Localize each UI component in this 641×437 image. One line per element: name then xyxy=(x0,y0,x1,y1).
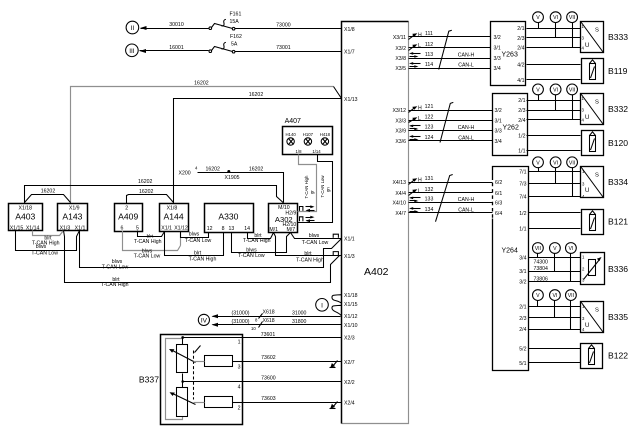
wire Y262 1/2 to B120 xyxy=(527,135,581,137)
sensor B119 xyxy=(582,59,628,84)
svg-text:30010: 30010 xyxy=(169,22,184,28)
svg-text:1/2: 1/2 xyxy=(518,134,525,140)
svg-text:2: 2 xyxy=(238,406,241,412)
svg-text:H107: H107 xyxy=(303,132,314,137)
svg-text:133: 133 xyxy=(425,197,434,203)
node VI xyxy=(550,12,561,38)
svg-text:IV: IV xyxy=(201,317,208,324)
wire 133 CAN-H X4/10 to Y264 6/3 xyxy=(409,197,493,203)
svg-text:16202: 16202 xyxy=(41,189,56,195)
svg-text:X2/4: X2/4 xyxy=(344,400,355,406)
svg-text:111: 111 xyxy=(425,31,433,37)
wire 73806 Y264 3/2 to B336 pin3 xyxy=(529,277,581,283)
svg-text:16202: 16202 xyxy=(138,179,153,185)
svg-text:31000: 31000 xyxy=(292,310,307,316)
svg-text:B336: B336 xyxy=(608,264,628,274)
svg-text:5/2: 5/2 xyxy=(519,346,526,352)
svg-text:6/1: 6/1 xyxy=(495,191,502,197)
svg-text:Y262: Y262 xyxy=(503,125,519,132)
wire blrt T-CAN High A302 M/1 to A402 X1/3 xyxy=(274,233,342,264)
svg-text:113: 113 xyxy=(425,52,433,58)
A402 left pin labels xyxy=(344,27,358,406)
wire Y264 7/3 to B334 pin3 xyxy=(529,183,581,185)
svg-text:VI: VI xyxy=(553,15,558,21)
svg-text:A144: A144 xyxy=(164,211,184,221)
wire blrt T-CAN High A330 pin14 to A302 M/1 xyxy=(243,233,274,245)
wire 73601 B337 pin1 to X2/3 xyxy=(183,332,342,338)
svg-text:H418: H418 xyxy=(320,132,331,137)
svg-text:2/3: 2/3 xyxy=(517,36,524,42)
svg-text:X1/7: X1/7 xyxy=(344,50,355,56)
node VII xyxy=(567,12,578,48)
cable marker group3 xyxy=(436,175,453,222)
wire Y263 2/1 to B333 pin1 xyxy=(527,28,581,30)
sensor B122 xyxy=(581,344,629,369)
wire Y264 2/4 to B335 pin4 xyxy=(529,329,581,331)
svg-text:134: 134 xyxy=(425,207,434,213)
wire 132 X4/4 to Y264 6/1 xyxy=(409,187,493,195)
wire 73001 xyxy=(235,45,342,52)
node IV xyxy=(198,314,209,325)
svg-text:1/8: 1/8 xyxy=(296,149,303,154)
svg-text:X3/11: X3/11 xyxy=(393,35,406,41)
svg-text:B120: B120 xyxy=(608,138,628,148)
lamp H107 xyxy=(303,132,314,145)
svg-text:4/2: 4/2 xyxy=(517,63,524,69)
svg-text:3/1: 3/1 xyxy=(494,46,501,52)
wire Y262 2/4 to B332 pin4 xyxy=(527,119,581,121)
svg-text:X4/10: X4/10 xyxy=(392,201,406,207)
svg-text:73806: 73806 xyxy=(534,277,549,283)
svg-text:10: 10 xyxy=(251,326,256,331)
wire 16202 black bus A144 X1/8 to A402 X1/13 xyxy=(174,92,342,203)
wire 16202 A403 X1/18 to A302 M/10 xyxy=(25,179,284,203)
node I screen marker xyxy=(316,299,329,312)
svg-text:X618: X618 xyxy=(263,318,275,324)
svg-text:A402: A402 xyxy=(364,266,389,278)
wire blws T-CAN Low A330 pin13 to A302 M/7 xyxy=(232,233,291,259)
wire 73602 B337 pin3 to X2/7 xyxy=(243,355,342,362)
svg-text:2/1: 2/1 xyxy=(518,98,525,104)
cable marker group1 xyxy=(439,30,452,69)
svg-text:VII: VII xyxy=(568,293,574,299)
wire 134 CAN-L X4/7 to Y264 6/4 xyxy=(409,207,493,213)
svg-text:73602: 73602 xyxy=(261,355,276,361)
mechanical link dashed xyxy=(194,346,201,400)
svg-text:12: 12 xyxy=(207,226,213,232)
svg-text:CAN-H: CAN-H xyxy=(458,52,475,58)
svg-text:F161: F161 xyxy=(230,12,242,18)
svg-text:6/3: 6/3 xyxy=(495,201,502,207)
potentiometer P1 xyxy=(169,336,196,372)
wire 111 X3/11 to Y263 3/2 xyxy=(409,31,491,39)
wire blws T-CAN Low A403 X1/15 to A143 X1/1 xyxy=(16,231,80,257)
svg-text:X1/3: X1/3 xyxy=(60,226,71,232)
svg-text:T-CAN Low: T-CAN Low xyxy=(185,238,212,244)
lamp H140 xyxy=(285,132,296,145)
svg-text:3/4: 3/4 xyxy=(495,139,502,145)
svg-text:3/2: 3/2 xyxy=(494,35,501,41)
svg-text:A330: A330 xyxy=(218,212,238,222)
wire Y264 5/2 to B122 xyxy=(529,348,581,350)
svg-text:5/1: 5/1 xyxy=(519,361,526,367)
svg-text:3/3: 3/3 xyxy=(495,129,502,135)
node II xyxy=(126,21,139,34)
svg-text:3/4: 3/4 xyxy=(494,66,501,72)
node V xyxy=(550,243,561,272)
svg-text:X3/6: X3/6 xyxy=(395,139,406,145)
svg-text:B337: B337 xyxy=(139,375,159,385)
svg-text:5A: 5A xyxy=(231,42,238,48)
svg-text:16202: 16202 xyxy=(194,80,209,86)
svg-text:16001: 16001 xyxy=(169,45,184,51)
svg-text:132: 132 xyxy=(425,187,434,193)
module A409 xyxy=(115,204,143,232)
svg-text:blrt: blrt xyxy=(194,251,202,257)
svg-text:1/14: 1/14 xyxy=(312,149,321,154)
svg-text:(31000): (31000) xyxy=(232,319,250,325)
node V xyxy=(533,12,544,29)
node VII xyxy=(566,290,577,330)
wire 16202 gray bus A143 X1/9 to A402 X1/13 xyxy=(71,80,342,203)
svg-text:T-CAN Low: T-CAN Low xyxy=(320,175,325,198)
direction arrow at X2/4 xyxy=(330,402,338,409)
svg-text:31800: 31800 xyxy=(292,319,307,325)
screen link X1/15 to X1/12 xyxy=(332,305,342,315)
svg-text:X1/12: X1/12 xyxy=(344,314,358,320)
svg-text:1: 1 xyxy=(238,339,241,345)
wire Y263 4/2 to B119 xyxy=(527,64,581,66)
svg-text:T-CAN High: T-CAN High xyxy=(101,282,129,288)
svg-text:2/4: 2/4 xyxy=(518,118,525,124)
wire 122 X3/3 to Y262 3/1 xyxy=(409,115,493,123)
wire Y262 2/1 to B332 pin1 xyxy=(527,100,581,102)
svg-text:X3/3: X3/3 xyxy=(395,119,406,125)
wire Y263 4/1 to B119 xyxy=(527,79,581,81)
svg-text:VI: VI xyxy=(553,160,558,166)
A402 right pin labels xyxy=(392,35,406,217)
node VI xyxy=(550,157,561,184)
svg-text:3/2: 3/2 xyxy=(519,280,526,286)
svg-text:blws: blws xyxy=(309,233,320,239)
svg-text:114: 114 xyxy=(425,62,433,68)
connector bracket at X1/1 xyxy=(333,234,338,238)
wire 74300 Y264 3/4 to B336 pin1 xyxy=(529,258,581,266)
node V xyxy=(533,290,544,307)
svg-text:124: 124 xyxy=(425,135,434,141)
svg-text:6/2: 6/2 xyxy=(495,180,502,186)
svg-text:T-CAN High: T-CAN High xyxy=(296,257,324,263)
svg-text:2/3: 2/3 xyxy=(518,108,525,114)
solenoid unit Y263 xyxy=(491,22,526,86)
svg-text:gr: gr xyxy=(310,190,315,194)
wire 16202 from X200 pin 4 via splice X1905 to A302 M/10 xyxy=(179,166,284,203)
svg-text:B333: B333 xyxy=(608,32,628,42)
svg-text:T-CAN Low: T-CAN Low xyxy=(302,240,329,246)
svg-text:8: 8 xyxy=(222,226,225,232)
sensor B333 xyxy=(581,22,629,53)
svg-text:blrt: blrt xyxy=(304,251,312,257)
svg-text:121: 121 xyxy=(425,104,434,110)
svg-text:X1/3: X1/3 xyxy=(344,254,355,260)
wire gr T-CAN High A407 1/8 to A302 H2/9 xyxy=(298,155,317,212)
module A144 xyxy=(160,204,189,232)
svg-text:X1/9: X1/9 xyxy=(69,205,80,211)
fuse F161 xyxy=(209,12,241,31)
wire Y264 2/3 to B335 pin3 xyxy=(529,317,581,319)
svg-text:X1/13: X1/13 xyxy=(344,97,358,103)
svg-text:6/4: 6/4 xyxy=(495,211,502,217)
svg-text:A143: A143 xyxy=(62,211,82,221)
svg-text:CAN-H: CAN-H xyxy=(458,125,475,131)
wire 114 CAN-L X3/5 to Y263 3/4 xyxy=(409,62,491,68)
wire blrt T-CAN High A403 X1/14 to A143 X1/3 xyxy=(32,231,64,247)
svg-text:73603: 73603 xyxy=(261,396,276,402)
wire blws T-CAN Low A144 X1/12 to A330 pin12 xyxy=(181,232,212,245)
svg-text:T-CAN Low: T-CAN Low xyxy=(134,254,161,260)
svg-text:T-CAN High: T-CAN High xyxy=(304,175,309,199)
svg-text:T-CAN High: T-CAN High xyxy=(189,257,217,263)
node VII xyxy=(533,243,544,258)
svg-text:2/1: 2/1 xyxy=(519,304,526,310)
svg-text:VII: VII xyxy=(569,15,575,21)
svg-text:B335: B335 xyxy=(608,312,628,322)
sensor B120 xyxy=(582,131,629,156)
svg-text:VI: VI xyxy=(552,293,557,299)
svg-text:Y264: Y264 xyxy=(502,248,518,255)
svg-text:16202: 16202 xyxy=(249,92,264,98)
svg-text:2: 2 xyxy=(125,205,128,211)
sensor B121 xyxy=(582,210,629,235)
svg-text:X1/15: X1/15 xyxy=(10,226,24,232)
svg-text:A407: A407 xyxy=(285,118,301,125)
svg-text:X3/2: X3/2 xyxy=(395,46,406,52)
svg-text:3/4: 3/4 xyxy=(519,256,526,262)
svg-text:V: V xyxy=(536,87,540,93)
svg-text:X1/10: X1/10 xyxy=(344,323,358,329)
wire blrt T-CAN High bus A143 X1/3 to A402 X1/3 xyxy=(64,231,340,289)
svg-text:T-CAN Low: T-CAN Low xyxy=(31,251,58,257)
svg-text:V: V xyxy=(536,160,540,166)
svg-text:F162: F162 xyxy=(230,34,242,40)
svg-text:VII: VII xyxy=(569,160,575,166)
svg-text:L: L xyxy=(418,116,421,122)
wire gn T-CAN Low A407 1/14 to A302 H2/10 xyxy=(298,155,333,223)
svg-text:T-CAN Low: T-CAN Low xyxy=(238,253,265,259)
wire Y264 7/1 to B334 pin1 xyxy=(529,171,581,173)
svg-text:4: 4 xyxy=(238,384,241,390)
node VI xyxy=(550,84,561,111)
svg-text:CAN-L: CAN-L xyxy=(458,62,474,68)
wire 121 X3/12 to Y262 3/2 xyxy=(409,104,493,112)
wire Y264 2/1 to B335 pin1 xyxy=(529,306,581,308)
connector arrows at H2/10 xyxy=(300,216,315,222)
svg-text:T-CAN High: T-CAN High xyxy=(134,239,162,245)
wire Y263 2/3 to B333 pin3 xyxy=(527,37,581,39)
resistor R2 xyxy=(194,397,243,408)
node V xyxy=(533,84,544,101)
svg-text:112: 112 xyxy=(425,42,433,48)
module A403 xyxy=(9,204,43,232)
wire 31000 to A402 X1/12 via X618 pin 8 xyxy=(212,309,341,322)
svg-text:122: 122 xyxy=(425,115,434,121)
svg-text:16202: 16202 xyxy=(139,189,154,195)
connector bracket at X1/3 xyxy=(333,252,338,256)
svg-text:H2/9: H2/9 xyxy=(285,210,296,216)
svg-text:X4/7: X4/7 xyxy=(395,211,406,217)
svg-text:X1/8: X1/8 xyxy=(344,27,355,33)
splice X1905 xyxy=(224,170,239,181)
svg-text:X2/2: X2/2 xyxy=(344,380,355,386)
svg-text:VI: VI xyxy=(553,87,558,93)
svg-text:V: V xyxy=(536,293,540,299)
svg-text:L: L xyxy=(418,189,421,195)
svg-text:3/3: 3/3 xyxy=(494,56,501,62)
svg-text:X618: X618 xyxy=(263,309,275,315)
svg-text:X1/1: X1/1 xyxy=(75,226,86,232)
svg-text:15A: 15A xyxy=(230,19,240,25)
svg-text:73804: 73804 xyxy=(534,266,549,272)
svg-text:gn: gn xyxy=(326,187,331,192)
svg-text:2/4: 2/4 xyxy=(519,327,526,333)
wire Y264 7/4 to B334 pin4 xyxy=(529,196,581,198)
svg-text:131: 131 xyxy=(425,176,434,182)
svg-text:1/1: 1/1 xyxy=(518,149,525,155)
direction arrow at X2/7 xyxy=(330,361,338,369)
svg-text:A403: A403 xyxy=(15,211,35,221)
wire 31800 to A402 X1/10 via X618 pin 10 xyxy=(212,318,342,331)
svg-text:I: I xyxy=(321,302,323,309)
wire 73603 B337 pin2 to X2/4 xyxy=(243,396,342,403)
svg-text:2/3: 2/3 xyxy=(519,316,526,322)
svg-text:III: III xyxy=(129,48,135,55)
wire blws T-CAN Low A409 pin6 to A144 X1/12 xyxy=(123,231,181,260)
svg-text:2/1: 2/1 xyxy=(517,26,524,32)
sensor B335 xyxy=(581,302,629,333)
svg-text:X3/8: X3/8 xyxy=(395,56,406,62)
svg-text:L: L xyxy=(418,43,421,49)
svg-text:V: V xyxy=(536,15,540,21)
solenoid unit Y262 xyxy=(493,94,528,156)
wire Y264 5/1 to B122 xyxy=(529,362,581,364)
svg-text:73000: 73000 xyxy=(276,22,291,28)
svg-text:B122: B122 xyxy=(608,351,628,361)
svg-text:13: 13 xyxy=(229,226,235,232)
node VI xyxy=(566,243,577,282)
svg-text:A409: A409 xyxy=(118,211,138,221)
svg-text:14: 14 xyxy=(244,226,250,232)
wire 16202 A403 X1/18 to A143 X1/9 xyxy=(25,189,71,203)
svg-text:VI: VI xyxy=(568,246,573,252)
wire 16001 xyxy=(140,45,209,53)
svg-text:3/2: 3/2 xyxy=(495,108,502,114)
module A302 xyxy=(269,204,298,234)
svg-text:3/1: 3/1 xyxy=(519,269,526,275)
svg-text:1/1: 1/1 xyxy=(519,227,526,233)
wire 16202 A409 pin2 to A144 X1/8 xyxy=(127,189,174,204)
svg-text:7/1: 7/1 xyxy=(519,170,526,176)
svg-text:T-CAN Low: T-CAN Low xyxy=(102,264,129,270)
sensor B332 xyxy=(581,94,629,125)
wire blws T-CAN Low bus A143 X1/1 to A402 X1/1 xyxy=(80,231,342,271)
connector arrows at H2/9 xyxy=(300,205,315,211)
svg-text:B332: B332 xyxy=(608,104,628,114)
svg-text:X4/13: X4/13 xyxy=(392,180,406,186)
node VII xyxy=(567,157,578,197)
wire 131 X4/13 to Y264 6/2 xyxy=(409,176,493,184)
svg-text:X1/12: X1/12 xyxy=(174,226,188,232)
svg-text:X1/8: X1/8 xyxy=(167,205,178,211)
svg-text:7/3: 7/3 xyxy=(519,182,526,188)
sensor B336 variable resistor xyxy=(581,253,629,285)
svg-text:X2/7: X2/7 xyxy=(344,360,355,366)
svg-text:X3/5: X3/5 xyxy=(395,66,406,72)
wire blrt T-CAN High A409 pin5 to A144 X1/1 xyxy=(134,231,165,245)
A407 pin labels xyxy=(296,149,322,154)
svg-text:blws: blws xyxy=(36,244,47,250)
wire Y262 2/3 to B332 pin3 xyxy=(527,110,581,112)
module A143 xyxy=(58,204,88,232)
svg-text:(31000): (31000) xyxy=(232,311,250,317)
svg-text:X1/18: X1/18 xyxy=(19,205,33,211)
svg-text:123: 123 xyxy=(425,125,434,131)
svg-text:VII: VII xyxy=(535,246,541,252)
fuse F162 xyxy=(209,34,242,53)
svg-text:2/4: 2/4 xyxy=(517,46,524,52)
svg-text:3/1: 3/1 xyxy=(495,119,502,125)
resistor R1 xyxy=(194,356,243,367)
svg-text:CAN-L: CAN-L xyxy=(458,207,474,213)
svg-text:blws: blws xyxy=(189,232,200,238)
svg-text:16202: 16202 xyxy=(205,166,220,172)
svg-text:1/2: 1/2 xyxy=(519,211,526,217)
wire Y263 2/4 to B333 pin4 xyxy=(527,47,581,49)
wire Y262 1/1 to B120 xyxy=(527,150,581,152)
svg-text:7/4: 7/4 xyxy=(519,194,526,200)
B337 internal gray loop xyxy=(166,339,183,420)
wire 73600 B337 pin4 to X2/2 xyxy=(243,375,342,381)
svg-text:H140: H140 xyxy=(285,132,296,137)
svg-text:CAN-L: CAN-L xyxy=(458,135,474,141)
svg-text:VII: VII xyxy=(569,87,575,93)
svg-text:X1/1: X1/1 xyxy=(344,237,355,243)
svg-text:74300: 74300 xyxy=(534,260,549,266)
svg-text:B119: B119 xyxy=(608,66,628,76)
svg-text:H: H xyxy=(418,33,422,39)
svg-text:73600: 73600 xyxy=(261,375,276,381)
svg-text:3: 3 xyxy=(238,365,241,371)
svg-text:CAN-H: CAN-H xyxy=(458,197,475,203)
svg-text:V: V xyxy=(553,246,557,252)
svg-text:II: II xyxy=(131,25,135,32)
svg-text:X1/18: X1/18 xyxy=(344,293,358,299)
svg-text:T-CAN High: T-CAN High xyxy=(243,238,271,244)
svg-text:H: H xyxy=(418,178,422,184)
control unit A402 xyxy=(342,22,409,424)
wire 30010 xyxy=(140,22,209,30)
wire blrt T-CAN High A144 X1/1 to A330 pin8 xyxy=(165,232,224,263)
node III xyxy=(126,44,139,57)
wire 73804 Y264 3/1 to B336 pin2 xyxy=(529,266,581,272)
wire 113 CAN-H X3/8 to Y263 3/3 xyxy=(409,52,491,58)
svg-text:X1/1: X1/1 xyxy=(161,226,172,232)
wire Y264 1/2 to B121 xyxy=(529,212,581,214)
svg-text:X1905: X1905 xyxy=(224,175,239,181)
potentiometer P2 xyxy=(170,388,196,417)
node V xyxy=(533,157,544,172)
svg-text:X4/4: X4/4 xyxy=(395,191,406,197)
wire 124 CAN-L X3/6 to Y262 3/4 xyxy=(409,135,493,141)
